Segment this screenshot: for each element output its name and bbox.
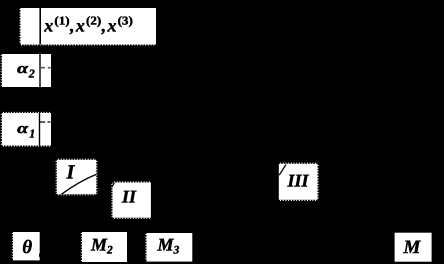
wire: gray dashed level alpha2 — [41, 67, 51, 69]
wire: trajectory curve through box I — [62, 174, 97, 194]
wire: trajectory tick at box III corner — [279, 165, 286, 176]
label box I — [57, 160, 97, 194]
label box II — [113, 183, 151, 218]
label box alpha1 — [2, 113, 51, 146]
svg-text:θ: θ — [22, 237, 32, 258]
label box theta — [13, 232, 40, 260]
label box M2 — [82, 232, 127, 262]
wire: y-axis segment through alpha1 box — [39, 113, 41, 146]
label box M3 — [147, 233, 193, 262]
label box III — [279, 164, 318, 200]
svg-text:I: I — [66, 162, 76, 184]
label box alpha2 — [2, 54, 51, 87]
label box x(1),x(2),x(3) — [21, 8, 157, 45]
svg-text:III: III — [287, 170, 310, 190]
wire: trajectory tick at box II corner — [111, 183, 114, 190]
label box M — [395, 233, 432, 262]
scan-teeth edges — [1, 9, 318, 261]
svg-text:II: II — [121, 187, 137, 207]
svg-text:M: M — [403, 237, 422, 258]
node: axis tick at theta box edge — [39, 254, 42, 257]
wire: y-axis segment through alpha2 box — [39, 54, 41, 87]
wire: black dashed level alpha1 — [40, 121, 51, 123]
wire: y-axis segment through top box — [39, 8, 41, 45]
